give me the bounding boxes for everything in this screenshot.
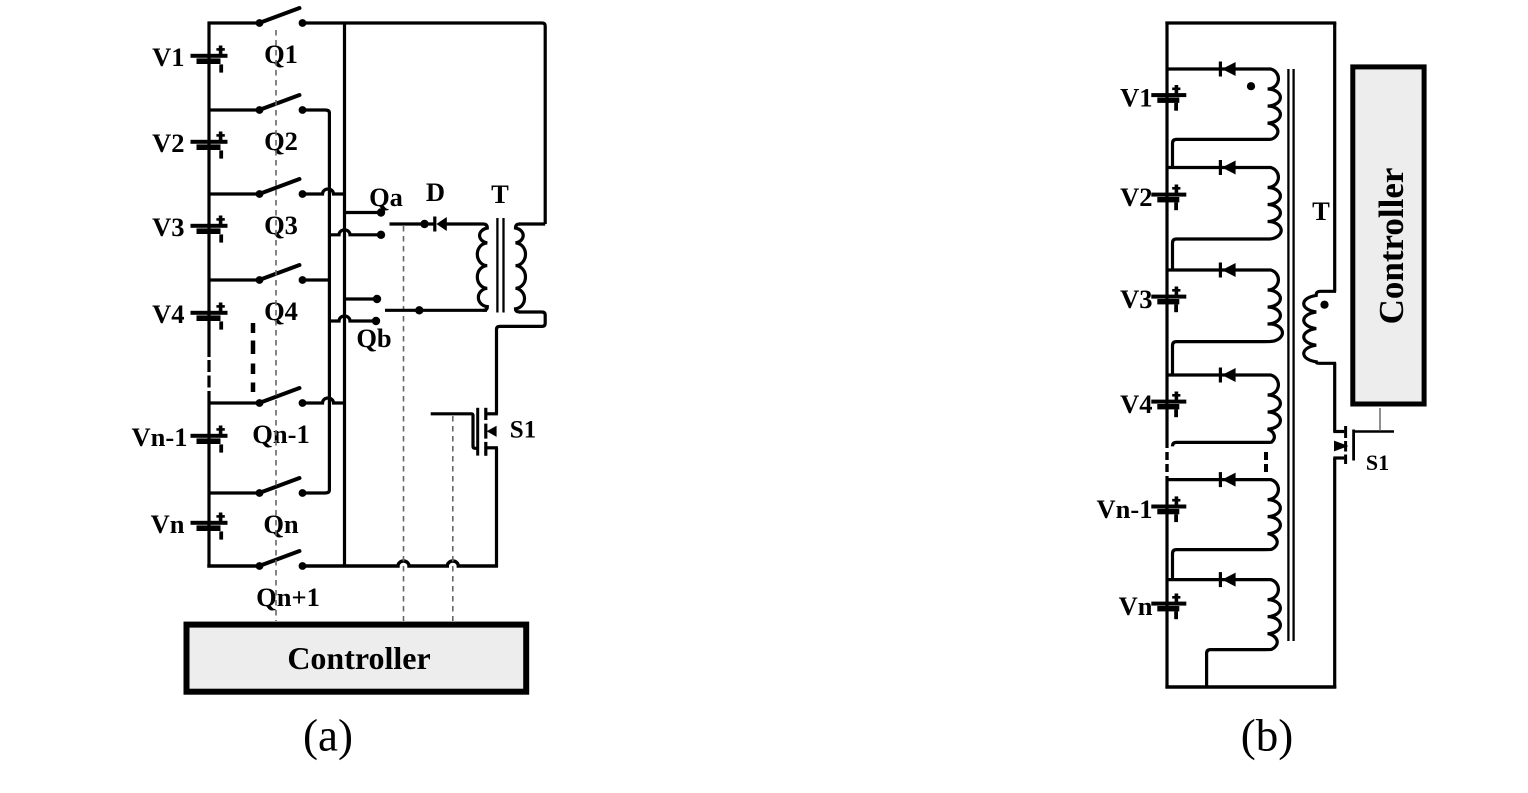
battery V4 (1151, 400, 1186, 404)
wire (b) left stack rail lower (1165, 476, 1168, 688)
svg-text:Qn-1: Qn-1 (252, 419, 309, 449)
wire (b) bottom rail (1165, 685, 1336, 688)
wire controller to S1 gate (1379, 408, 1381, 431)
transistor S1 gate bar (476, 408, 479, 456)
wire left stack rail (upper) (207, 22, 210, 357)
diode D6 (1219, 572, 1222, 587)
svg-text:(b): (b) (1241, 711, 1293, 761)
wire (b) S1 source to bottom rail (1333, 458, 1336, 688)
battery Vn-1 (191, 434, 228, 438)
wire (b) cell V3 loop top (1167, 268, 1262, 271)
switch Qn+1 (256, 562, 264, 570)
dashed control line to S1 gate (452, 416, 454, 621)
svg-text:V4: V4 (152, 299, 184, 329)
battery V1 (1151, 93, 1186, 97)
transistor S1 (b) channel segments (1344, 426, 1347, 438)
transformer winding W1 (1262, 69, 1280, 139)
svg-text:Q4: Q4 (264, 296, 298, 326)
wire bottom rail with hops over control lines (303, 561, 498, 566)
phase dot of secondary winding (1320, 301, 1328, 309)
wire (b) cell V1 loop bottom (1173, 139, 1265, 167)
wire (b) cell Vn loop top (1167, 578, 1262, 581)
svg-text:Q3: Q3 (264, 210, 298, 240)
svg-text:Q1: Q1 (264, 39, 298, 69)
svg-text:Vn: Vn (1119, 591, 1153, 621)
svg-text:T: T (491, 179, 509, 209)
svg-text:V2: V2 (1120, 182, 1152, 212)
wire S1 source to bottom rail (495, 448, 498, 568)
svg-text:Controller: Controller (1372, 168, 1411, 325)
battery Vn (1151, 602, 1186, 606)
svg-text:V1: V1 (1120, 83, 1152, 113)
transformer winding W4 (1262, 375, 1280, 442)
wire (b) right rail upper (1333, 23, 1336, 291)
diode D5 (1219, 472, 1222, 487)
wire top rail left segment (208, 21, 260, 24)
switch Qn (256, 489, 264, 497)
dashed control line to selection switches (275, 30, 277, 621)
svg-text:Qa: Qa (369, 182, 403, 212)
phase dot of winding W1 (1247, 82, 1255, 90)
transformer T core (496, 218, 498, 313)
battery V3 (191, 224, 228, 228)
dashed control line to Qa/Qb (403, 226, 405, 621)
transistor S1 gate lead (431, 414, 477, 449)
battery Vn (191, 521, 228, 525)
bus B vertical (328, 116, 331, 487)
transformer winding W5 (1262, 480, 1280, 550)
wire (b) secondary to S1 drain (1333, 363, 1336, 431)
svg-text:V3: V3 (1120, 284, 1152, 314)
svg-text:D: D (426, 177, 445, 207)
svg-text:Vn: Vn (151, 509, 185, 539)
svg-text:(a): (a) (303, 711, 353, 761)
controller box (b) (1353, 67, 1424, 404)
wire (b) cell V2 loop bottom (1173, 239, 1265, 270)
transistor S1 (b) gate bar (1352, 430, 1355, 461)
transformer T secondary winding (516, 224, 526, 312)
wire row3 to bus A with hop over bus B (303, 189, 345, 194)
transformer (b) secondary winding (1304, 291, 1336, 363)
wire (b) cell V3 loop bottom (1173, 342, 1265, 375)
transistor S1 (b) source stub (1333, 456, 1344, 459)
battery V2 (191, 140, 228, 144)
svg-text:V4: V4 (1120, 389, 1152, 419)
switch Q3 (256, 190, 264, 198)
transistor S1 (b) gate lead (1354, 430, 1394, 432)
transformer (b) core (1287, 69, 1289, 641)
battery V4 (191, 311, 228, 315)
svg-text:S1: S1 (1366, 450, 1389, 475)
transistor S1 (b) drain stub (1333, 430, 1344, 433)
wire Qb common to primary winding bottom (385, 309, 487, 312)
battery Vn-1 (1151, 505, 1186, 509)
wire (b) left stack rail upper (1165, 22, 1168, 448)
transformer T primary winding (477, 224, 487, 310)
svg-text:V1: V1 (152, 42, 184, 72)
diode D3 (1219, 263, 1222, 278)
wire row2 to bus B (303, 110, 330, 116)
battery V1 (191, 54, 228, 58)
switch Qa upper contact stub from bus A (345, 211, 382, 214)
wire left stack rail (lower) (207, 391, 210, 567)
transistor S1 source stub (486, 446, 498, 449)
switch Qb lower contact stub from bus B with hop over bus A (329, 316, 376, 321)
wire row5 to bus A with hop over bus B (303, 398, 345, 403)
switch Qa lower contact stub from bus B with hop over bus A (329, 230, 381, 235)
diode D1 (1219, 62, 1222, 77)
wire (b) cell V4 loop top (1167, 373, 1262, 376)
wire secondary top lead (519, 222, 545, 225)
svg-text:V3: V3 (152, 212, 184, 242)
transistor S1 drain stub (486, 412, 498, 415)
svg-text:Vn-1: Vn-1 (132, 422, 188, 452)
wire diode D to primary winding (446, 222, 483, 225)
svg-text:S1: S1 (510, 417, 536, 444)
controller box (187, 625, 527, 692)
wire Qa common to diode D (390, 222, 435, 225)
diode D4 (1219, 368, 1222, 383)
wire (b) cell V1 loop top (1167, 67, 1262, 70)
wire row4 to bus B (303, 278, 330, 281)
transistor S1 body arrow (487, 426, 497, 437)
switch Q2 (256, 106, 264, 114)
svg-text:Controller: Controller (287, 640, 430, 676)
svg-text:Vn-1: Vn-1 (1097, 494, 1153, 524)
wire top rail right segment to right corner (303, 23, 546, 224)
switch Qb upper contact stub from bus A (345, 297, 378, 300)
transistor S1 channel segments (484, 408, 487, 420)
wire node row2 left (209, 108, 260, 111)
battery V2 (1151, 193, 1186, 197)
svg-text:Qn: Qn (263, 509, 299, 539)
ellipsis dashes on (b) left rail (1165, 452, 1168, 460)
svg-text:Qn+1: Qn+1 (256, 582, 320, 612)
transformer winding W3 (1262, 270, 1282, 342)
switch Qn-1 (256, 399, 264, 407)
battery V3 (1151, 295, 1186, 299)
wire node row3 left (209, 192, 260, 195)
transformer winding W6 (1262, 580, 1280, 650)
switch Q4 (256, 276, 264, 284)
ellipsis dashes on left rail (207, 360, 210, 372)
wire (b) cell V2 loop top (1167, 166, 1262, 169)
svg-text:T: T (1312, 196, 1330, 226)
wire (b) cell V4 loop bottom (1173, 442, 1265, 446)
svg-text:Qb: Qb (356, 323, 391, 353)
diode D (433, 217, 436, 232)
wire node row6 left (209, 491, 260, 494)
wire node row5 left (209, 401, 260, 404)
transistor S1 (b) body arrow (1334, 441, 1349, 452)
transformer winding W2 (1262, 168, 1281, 240)
svg-text:Q2: Q2 (264, 126, 298, 156)
wire row6 to bus B (303, 487, 330, 493)
wire (b) top rail (1165, 21, 1336, 24)
wire bottom rail left segment (207, 564, 259, 567)
bus A vertical (343, 23, 346, 566)
wire (b) cell Vn-1 loop top (1167, 478, 1262, 481)
diode D2 (1219, 160, 1222, 175)
svg-text:V2: V2 (152, 128, 184, 158)
wire secondary bottom lead with step down to S1 drain (497, 312, 546, 414)
wire (b) cell Vn loop bottom to stack bottom (1207, 650, 1264, 687)
wire (b) cell Vn-1 loop bottom (1173, 550, 1265, 580)
ellipsis dashes (more switches) (251, 323, 256, 333)
ellipsis dashes (more cells) (1264, 452, 1268, 460)
switch Q1 (256, 19, 264, 27)
wire node row4 left (209, 278, 260, 281)
